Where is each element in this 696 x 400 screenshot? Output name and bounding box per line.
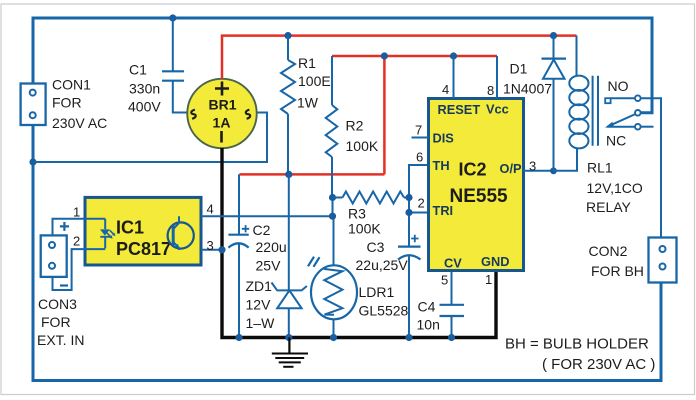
svg-text:O/P: O/P [500, 161, 523, 176]
svg-text:C1: C1 [129, 62, 147, 78]
svg-text:7: 7 [415, 123, 422, 138]
wire IC1 pin4 to sense node [201, 202, 333, 217]
wire IC2 pin8 vcc [487, 56, 497, 99]
svg-text:FOR: FOR [52, 95, 82, 111]
svg-text:Vcc: Vcc [486, 102, 509, 117]
svg-text:TRI: TRI [433, 203, 454, 218]
svg-text:100K: 100K [348, 221, 381, 237]
svg-text:8: 8 [487, 83, 494, 98]
resistor R3 [333, 192, 410, 237]
svg-text:R1: R1 [298, 55, 316, 71]
relay contact NO [605, 78, 661, 238]
svg-text:4: 4 [207, 202, 214, 217]
capacitor C1 [128, 18, 188, 115]
svg-text:2: 2 [73, 234, 80, 249]
wire IC1 pin3 to ground [201, 238, 222, 253]
svg-text:GL5528: GL5528 [359, 303, 409, 319]
node junction output / D1 / relay coil [550, 167, 557, 174]
note BH [505, 336, 655, 374]
svg-text:2: 2 [418, 196, 425, 211]
svg-text:22u,25V: 22u,25V [356, 257, 409, 273]
svg-text:1: 1 [73, 205, 80, 220]
node junction 12V rail / vertical [381, 52, 388, 59]
ground bus (black) from BR1 minus to IC2 GND [222, 148, 496, 338]
svg-text:3: 3 [529, 159, 536, 174]
svg-text:400V: 400V [128, 99, 161, 115]
svg-text:100E: 100E [298, 73, 331, 89]
wire IC2 pin4 reset [442, 56, 454, 99]
capacitor C4 [417, 271, 465, 338]
node junction D1 on red rail [550, 32, 557, 39]
svg-text:NE555: NE555 [450, 186, 509, 207]
svg-text:330n: 330n [129, 81, 160, 97]
svg-text:LDR1: LDR1 [359, 284, 395, 300]
svg-text:C4: C4 [418, 299, 436, 315]
node junction IC1 pin3 / ground wire [218, 246, 225, 253]
svg-text:GND: GND [481, 254, 509, 269]
svg-text:5: 5 [441, 273, 448, 288]
zener diode ZD1 [246, 174, 307, 337]
svg-text:CON2: CON2 [589, 243, 628, 259]
svg-text:1N4007: 1N4007 [503, 81, 552, 97]
node junction R1 top on red rail [284, 32, 291, 39]
svg-text:C2: C2 [253, 222, 271, 238]
svg-text:4: 4 [442, 82, 449, 97]
svg-text:BH = BULB HOLDER: BH = BULB HOLDER [505, 336, 649, 353]
svg-text:220u: 220u [256, 239, 287, 255]
node junction sense node / pin4 wire [329, 213, 336, 220]
svg-text:CON3: CON3 [38, 296, 77, 312]
capacitor C3 [356, 235, 421, 338]
wire phase bus: CON1 top to relay common [33, 18, 652, 113]
wire neutral bus: CON1 bottom, left border, bottom border to CON2 [33, 125, 661, 381]
svg-text:D1: D1 [510, 61, 528, 77]
node junction top bus / C1 [169, 14, 176, 21]
wire IC1 pin1 from CON3 plus [53, 205, 106, 236]
connector CON3 [37, 222, 84, 348]
LDR1 [308, 257, 409, 338]
timer IC2 NE555 [429, 99, 524, 271]
svg-text:RELAY: RELAY [586, 199, 632, 215]
node junction LDR on ground bus [330, 334, 337, 341]
svg-text:1–W: 1–W [246, 315, 276, 331]
svg-text:C3: C3 [367, 239, 385, 255]
svg-text:FOR: FOR [41, 314, 71, 330]
svg-text:R3: R3 [348, 206, 366, 222]
svg-text:FOR BH: FOR BH [591, 263, 644, 279]
bridge rectifier BR1 [187, 79, 256, 148]
optocoupler IC1 PC817 [85, 197, 201, 265]
node junction TRI corner [405, 209, 412, 216]
diode D1 [503, 36, 566, 171]
svg-text:1W: 1W [297, 95, 319, 111]
relay RL1 coil [554, 36, 643, 215]
svg-text:10n: 10n [417, 317, 440, 333]
node junction R3 right [405, 194, 412, 201]
svg-text:RESET: RESET [438, 102, 481, 117]
svg-text:12V: 12V [246, 297, 272, 313]
capacitor C2 [228, 174, 286, 337]
connector CON1 [21, 77, 108, 132]
svg-text:CV: CV [444, 256, 462, 271]
svg-text:100K: 100K [346, 138, 379, 154]
svg-text:( FOR 230V AC ): ( FOR 230V AC ) [542, 356, 655, 373]
svg-text:BR1: BR1 [208, 97, 236, 113]
ground [272, 338, 308, 367]
svg-text:NC: NC [606, 133, 626, 149]
svg-text:PC817: PC817 [116, 239, 171, 259]
svg-text:EXT. IN: EXT. IN [37, 332, 84, 348]
wire sense node vertical [333, 198, 334, 266]
svg-text:DIS: DIS [433, 131, 455, 146]
svg-text:230V AC: 230V AC [52, 115, 107, 131]
wire IC1 pin2 to CON3 minus [53, 234, 106, 291]
node junction C4 on ground bus [448, 334, 455, 341]
svg-text:IC2: IC2 [459, 160, 487, 180]
resistor R2 [326, 56, 379, 198]
svg-text:6: 6 [416, 150, 423, 165]
svg-text:R2: R2 [346, 118, 364, 134]
wire IC2 pin7 dis stub [412, 123, 429, 138]
wire IC2 pin3 output [524, 159, 554, 174]
svg-text:IC1: IC1 [116, 218, 144, 238]
connector CON2 [589, 238, 677, 283]
node junction R1 bottom / ZD1 [285, 171, 292, 178]
svg-text:NO: NO [608, 78, 629, 94]
node junction left border to bridge [29, 158, 36, 165]
node junction reset pin on rail [450, 52, 457, 59]
node junction R2 bottom / R3 left [329, 194, 336, 201]
relay contact NC [606, 124, 654, 149]
node junction C2 on ground bus [235, 334, 242, 341]
svg-text:ZD1: ZD1 [246, 278, 273, 294]
svg-text:12V,1CO: 12V,1CO [587, 180, 643, 196]
wire red +V rail from BR1 plus [222, 36, 577, 79]
svg-text:CON1: CON1 [52, 77, 91, 93]
relay contact common pole [605, 110, 641, 128]
svg-text:3: 3 [207, 238, 214, 253]
svg-text:1A: 1A [213, 115, 231, 131]
node junction C3 on ground bus [405, 334, 412, 341]
wire red 12V rail (after R1) [239, 56, 497, 174]
svg-text:RL1: RL1 [587, 159, 613, 175]
IC1 phototransistor [168, 216, 194, 250]
node junction ZD1 on ground bus [285, 334, 292, 341]
resistor R1 [281, 36, 331, 175]
wire AC leg to BR1 right terminal [33, 113, 267, 163]
svg-text:1: 1 [485, 272, 492, 287]
svg-text:25V: 25V [256, 258, 282, 274]
svg-text:TH: TH [433, 158, 450, 173]
wire R3 right to TH and TRI [409, 165, 429, 247]
IC1 internal LED [100, 219, 115, 249]
